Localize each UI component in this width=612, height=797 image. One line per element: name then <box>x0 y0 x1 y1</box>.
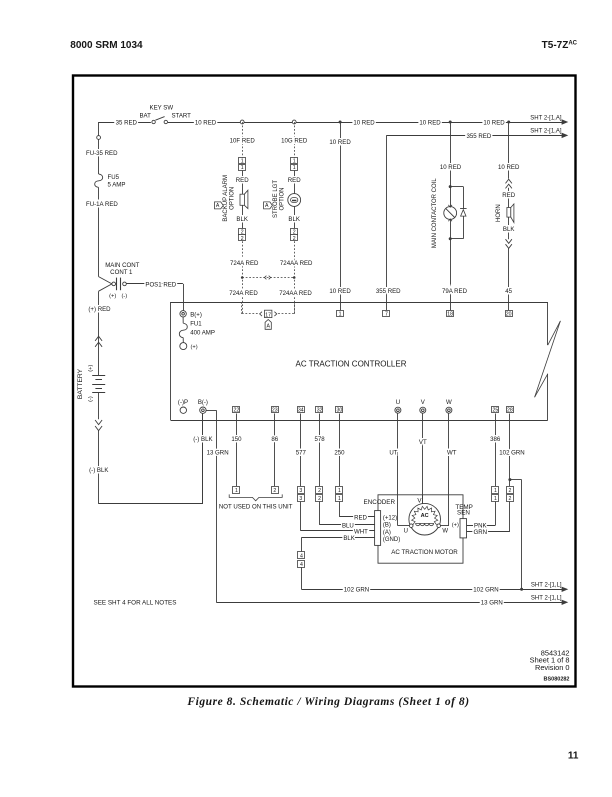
wire BLK strobe <box>294 206 296 228</box>
svg-text:3: 3 <box>299 488 302 494</box>
svg-text:(GND): (GND) <box>383 537 400 543</box>
break chevrons down <box>95 420 102 425</box>
svg-text:Figure 8. Schematic / Wiring: Figure 8. Schematic / Wiring Diagrams (S… <box>186 696 469 708</box>
svg-text:10F RED: 10F RED <box>230 138 256 145</box>
svg-text:U: U <box>396 399 400 406</box>
svg-text:11: 11 <box>568 751 579 762</box>
svg-text:OPTION: OPTION <box>230 187 236 210</box>
svg-text:FU-35 RED: FU-35 RED <box>86 150 118 157</box>
wire BLK below horn <box>508 217 510 239</box>
terminal 34 <box>298 407 305 413</box>
svg-text:RED: RED <box>236 177 249 184</box>
terminal U <box>395 407 401 413</box>
svg-text:2: 2 <box>241 236 244 242</box>
junction: branch to horn <box>507 121 510 124</box>
svg-text:W: W <box>446 399 452 406</box>
wire 355 RED to sheet 2 <box>386 135 564 137</box>
svg-text:SHT 2-[1,L]: SHT 2-[1,L] <box>531 596 562 602</box>
wire (+) RED battery positive <box>98 291 100 375</box>
fuse FU5 5 AMP <box>95 174 103 187</box>
wire (-) BLK to B(-) <box>98 431 100 504</box>
connector pin 2 (86) <box>272 487 279 494</box>
svg-text:10 RED: 10 RED <box>498 164 520 171</box>
connector pins 4/4 (BLK) <box>298 552 305 559</box>
connector pins 2/2 backup alarm <box>239 229 246 235</box>
terminal 30 <box>336 407 343 413</box>
svg-text:U: U <box>404 529 408 535</box>
svg-text:SHT 2-[1,A]: SHT 2-[1,A] <box>530 129 562 135</box>
svg-text:10G RED: 10G RED <box>281 138 308 145</box>
svg-text:13 GRN: 13 GRN <box>207 450 229 457</box>
svg-text:1: 1 <box>293 159 296 165</box>
connector pins 1/1 (386) <box>492 487 499 494</box>
svg-text:BLK: BLK <box>288 216 300 223</box>
wire BLK backup alarm <box>242 205 244 228</box>
svg-text:OPTION: OPTION <box>280 187 286 210</box>
svg-text:3: 3 <box>299 496 302 502</box>
svg-text:1: 1 <box>241 159 244 165</box>
svg-text:RED: RED <box>288 177 301 184</box>
terminal 18 <box>447 311 454 317</box>
AC traction motor box <box>378 495 463 563</box>
svg-text:30: 30 <box>337 408 343 414</box>
wire RED to encoder <box>339 502 341 517</box>
svg-text:102 GRN: 102 GRN <box>473 587 498 594</box>
svg-text:102 GRN: 102 GRN <box>499 450 524 457</box>
svg-text:RED: RED <box>354 514 367 521</box>
svg-text:AC TRACTION MOTOR: AC TRACTION MOTOR <box>391 549 458 556</box>
svg-text:START: START <box>171 112 191 119</box>
wire 10 RED contactor branch <box>450 122 452 207</box>
svg-text:10 RED: 10 RED <box>440 164 462 171</box>
arrow to SHT 2-[1,A] (10 RED) <box>562 120 567 124</box>
terminal 1 <box>337 311 344 317</box>
wire BLK from encoder <box>301 537 374 539</box>
terminal B(+) <box>180 311 186 317</box>
wire RED strobe <box>294 171 296 194</box>
svg-text:577: 577 <box>296 450 307 457</box>
wire battery negative <box>98 393 100 420</box>
svg-text:34: 34 <box>298 408 304 414</box>
svg-text:2: 2 <box>508 496 511 502</box>
fuse FU1 400 AMP <box>182 317 184 323</box>
svg-text:(+12): (+12) <box>383 515 397 521</box>
svg-text:WHT: WHT <box>354 528 368 535</box>
wire VT motor phase V <box>422 414 424 504</box>
svg-text:20: 20 <box>506 312 512 318</box>
svg-text:86: 86 <box>271 436 278 443</box>
wire 102 GRN from terminal 28 <box>509 414 511 487</box>
terminal 20 <box>506 311 513 317</box>
svg-text:79A RED: 79A RED <box>442 288 468 295</box>
svg-text:2: 2 <box>318 496 321 502</box>
flag A below connector 17 <box>265 320 271 330</box>
svg-text:SHT 2-[1,L]: SHT 2-[1,L] <box>531 583 562 589</box>
svg-text:13 GRN: 13 GRN <box>481 600 503 607</box>
wire POS1 RED to B(+) <box>126 283 183 285</box>
wire GRN to temp sensor <box>509 502 511 532</box>
svg-text:FU1: FU1 <box>190 321 202 328</box>
svg-text:FU5: FU5 <box>108 174 120 181</box>
svg-text:25: 25 <box>493 408 499 414</box>
svg-text:17: 17 <box>265 312 271 318</box>
svg-text:22: 22 <box>234 408 240 414</box>
wire 79A RED to terminal 18 <box>450 219 452 310</box>
svg-text:MAIN CONTACTOR COIL: MAIN CONTACTOR COIL <box>432 178 438 248</box>
wire 150 <box>236 414 238 487</box>
junction: branch to contactor coil <box>449 121 452 124</box>
svg-text:1: 1 <box>235 488 238 494</box>
svg-text:FU-1A RED: FU-1A RED <box>86 201 118 208</box>
temp sensor TEMP SEN <box>460 519 467 538</box>
wire 10G RED dashed <box>294 122 296 158</box>
svg-text:WT: WT <box>447 450 457 457</box>
svg-text:400 AMP: 400 AMP <box>190 330 215 337</box>
svg-text:(A): (A) <box>383 530 391 536</box>
wire 13 GRN bus to sheet 2 <box>216 602 564 604</box>
wire FU-35 RED <box>98 122 100 174</box>
svg-text:SEE SHT 4 FOR ALL NOTES: SEE SHT 4 FOR ALL NOTES <box>94 600 177 607</box>
svg-text:1: 1 <box>338 496 341 502</box>
svg-text:2: 2 <box>293 236 296 242</box>
strobe light lamp <box>288 194 301 207</box>
svg-text:1: 1 <box>241 165 244 171</box>
svg-text:NOT USED ON THIS UNIT: NOT USED ON THIS UNIT <box>219 504 293 511</box>
wire 35/10 RED top bus <box>99 122 151 124</box>
svg-text:(-)P: (-)P <box>178 399 188 406</box>
terminal 22 <box>233 407 240 413</box>
svg-text:BLK: BLK <box>236 216 248 223</box>
wire RED backup alarm <box>242 171 244 195</box>
motor AC stator <box>409 503 441 535</box>
wire 386 <box>495 414 497 487</box>
svg-text:(+): (+) <box>109 294 116 300</box>
wire 13 GRN <box>206 410 216 412</box>
svg-text:(-) BLK: (-) BLK <box>89 467 108 474</box>
svg-text:1: 1 <box>293 165 296 171</box>
svg-text:BAT: BAT <box>139 112 151 119</box>
arrow to SHT 2-[1,L] (102 GRN) <box>562 587 567 591</box>
wire 724A RED dashed <box>242 241 244 314</box>
wire RED to horn <box>508 188 510 208</box>
svg-text:(-): (-) <box>121 294 127 300</box>
svg-text:BACKUP ALARM: BACKUP ALARM <box>223 175 229 222</box>
break bolt on controller right edge <box>548 321 561 345</box>
wire WT motor phase W <box>448 414 450 526</box>
arrow to SHT 2-[1,L] (13 GRN) <box>562 600 567 604</box>
svg-text:355 RED: 355 RED <box>376 288 401 295</box>
terminal V <box>420 407 426 413</box>
wire 578 <box>319 414 321 487</box>
wire FU-1A RED <box>98 187 100 276</box>
connector pin 1 (150) <box>233 487 240 494</box>
svg-text:10 RED: 10 RED <box>419 119 441 126</box>
svg-text:10 RED: 10 RED <box>483 119 505 126</box>
svg-text:UT: UT <box>389 450 397 457</box>
svg-text:10 RED: 10 RED <box>353 119 375 126</box>
svg-text:4: 4 <box>300 554 303 560</box>
svg-text:724A RED: 724A RED <box>230 260 259 267</box>
svg-text:724AA RED: 724AA RED <box>279 290 312 297</box>
wire PNK to temp sensor <box>495 502 497 526</box>
svg-text:578: 578 <box>315 436 326 443</box>
svg-text:POS1 RED: POS1 RED <box>145 281 176 288</box>
motor terminal U <box>409 524 413 528</box>
svg-text:HORN: HORN <box>496 204 502 222</box>
svg-text:1: 1 <box>339 312 342 318</box>
motor terminal W <box>437 524 441 528</box>
svg-text:102 GRN: 102 GRN <box>344 587 369 594</box>
wire to 102 GRN bus <box>301 567 303 589</box>
svg-text:7: 7 <box>385 312 388 318</box>
connector pins 1/1 strobe <box>291 158 298 164</box>
break chevrons up <box>95 336 102 341</box>
svg-text:(-): (-) <box>88 396 94 402</box>
encoder ENCODER <box>375 511 381 546</box>
wire 10 RED horn branch <box>508 122 510 179</box>
svg-text:724AA RED: 724AA RED <box>280 260 313 267</box>
svg-text:BLK: BLK <box>343 535 355 542</box>
svg-text:BS080282: BS080282 <box>544 676 570 682</box>
svg-text:10 RED: 10 RED <box>329 288 351 295</box>
svg-text:A: A <box>265 203 269 209</box>
svg-text:35 RED: 35 RED <box>116 119 138 126</box>
svg-text:BLU: BLU <box>342 522 354 529</box>
svg-text:(+): (+) <box>191 345 198 351</box>
AC traction controller box <box>171 302 548 304</box>
svg-text:(B): (B) <box>383 523 391 529</box>
wire 577 <box>300 414 302 487</box>
terminal 7 <box>383 311 390 317</box>
svg-text:CONT 1: CONT 1 <box>110 269 133 276</box>
svg-text:4: 4 <box>300 562 303 568</box>
svg-text:1: 1 <box>494 488 497 494</box>
svg-text:28: 28 <box>507 408 513 414</box>
wire 102 GRN bus to sheet 2 <box>301 589 564 591</box>
wire 45 to terminal 20 <box>508 248 510 310</box>
svg-text:RED: RED <box>502 192 515 199</box>
terminal 25 <box>492 407 499 413</box>
svg-text:(+): (+) <box>88 365 94 372</box>
svg-text:AC TRACTION CONTROLLER: AC TRACTION CONTROLLER <box>296 359 407 368</box>
svg-text:150: 150 <box>231 436 242 443</box>
svg-text:BLK: BLK <box>503 226 515 233</box>
dashed link 724A-724AA <box>242 277 294 279</box>
wire 86 <box>274 414 276 487</box>
svg-text:VT: VT <box>419 439 427 446</box>
wire UT motor phase U <box>397 414 399 526</box>
svg-text:10 RED: 10 RED <box>195 119 217 126</box>
svg-text:32: 32 <box>317 408 323 414</box>
svg-text:SEN: SEN <box>457 510 470 517</box>
svg-text:Revision 0: Revision 0 <box>535 663 570 672</box>
wire 10F RED dashed <box>242 122 244 158</box>
svg-text:MAIN CONT: MAIN CONT <box>105 262 139 269</box>
svg-text:18: 18 <box>447 312 453 318</box>
svg-text:ENCODER: ENCODER <box>364 499 396 506</box>
connector 17 with dashed 724 wiring <box>241 302 243 314</box>
flag A strobe <box>264 202 273 209</box>
svg-text:AC: AC <box>421 513 429 519</box>
flag A backup alarm <box>215 202 224 209</box>
svg-text:10 RED: 10 RED <box>329 139 351 146</box>
wire 724AA RED dashed <box>294 241 296 314</box>
connector pins 1/1 (250) <box>336 487 343 494</box>
svg-text:1: 1 <box>494 496 497 502</box>
svg-text:2: 2 <box>318 488 321 494</box>
key switch KEY SW <box>155 117 164 121</box>
svg-text:724A RED: 724A RED <box>229 290 258 297</box>
svg-text:B(+): B(+) <box>190 312 202 319</box>
svg-text:(+): (+) <box>452 522 459 528</box>
terminal B(-) <box>200 407 206 413</box>
break chevrons below horn <box>506 239 512 243</box>
junction: branch to terminal 1 <box>339 121 342 124</box>
svg-text:8000 SRM 1034: 8000 SRM 1034 <box>70 40 143 51</box>
wire BLU to encoder <box>319 502 321 525</box>
connector pins 2/2 (578) <box>316 487 323 494</box>
svg-text:23: 23 <box>272 408 278 414</box>
svg-text:A: A <box>216 203 220 209</box>
svg-text:A: A <box>266 324 270 330</box>
svg-text:STROBE LGT: STROBE LGT <box>273 180 279 218</box>
connector pins 2/2 (102 GRN) <box>507 487 514 494</box>
svg-text:SHT 2-[1,A]: SHT 2-[1,A] <box>530 115 562 121</box>
svg-text:386: 386 <box>490 436 501 443</box>
svg-text:BATTERY: BATTERY <box>77 368 84 399</box>
svg-text:5 AMP: 5 AMP <box>108 181 126 188</box>
terminal 32 <box>316 407 323 413</box>
connector pins 2/2 strobe <box>291 229 298 235</box>
svg-text:(+) RED: (+) RED <box>88 306 111 313</box>
wire (-) BLK from B(-) <box>202 414 204 504</box>
connector pins 3/3 (577) <box>298 487 305 494</box>
break chevrons above horn <box>506 179 512 183</box>
svg-text:250: 250 <box>334 450 345 457</box>
wire 250 <box>339 414 341 487</box>
terminal (-)P <box>180 407 186 413</box>
wire 10 RED to terminal 1 <box>340 122 342 310</box>
svg-text:2: 2 <box>508 488 511 494</box>
motor terminal V <box>422 495 424 504</box>
wire 355 RED to terminal 7 <box>386 135 388 310</box>
svg-text:W: W <box>442 529 448 535</box>
connector pins 1/1 backup alarm <box>239 158 246 164</box>
svg-text:(-) BLK: (-) BLK <box>193 436 212 443</box>
terminal (+) <box>180 343 187 350</box>
arrow to SHT 2-[1,A] (355 RED) <box>562 133 567 137</box>
svg-text:2: 2 <box>273 488 276 494</box>
horn HORN <box>507 208 511 218</box>
node: backup alarm tap <box>240 120 244 124</box>
svg-text:45: 45 <box>505 288 512 295</box>
terminal 28 <box>507 407 514 413</box>
terminal 23 <box>272 407 279 413</box>
terminal W <box>446 407 452 413</box>
bracket NOT USED ON THIS UNIT <box>229 494 282 500</box>
backup alarm speaker <box>240 194 244 205</box>
wire WHT to encoder <box>300 502 302 531</box>
diagram border frame <box>73 76 576 687</box>
svg-text:1: 1 <box>338 488 341 494</box>
svg-text:B(-): B(-) <box>198 399 208 406</box>
svg-text:355 RED: 355 RED <box>467 133 492 140</box>
svg-text:KEY SW: KEY SW <box>150 105 174 112</box>
svg-text:GRN: GRN <box>474 529 488 536</box>
battery BATTERY <box>92 375 105 377</box>
node: strobe tap <box>292 120 296 124</box>
coil MAIN CONTACTOR COIL <box>449 185 452 188</box>
